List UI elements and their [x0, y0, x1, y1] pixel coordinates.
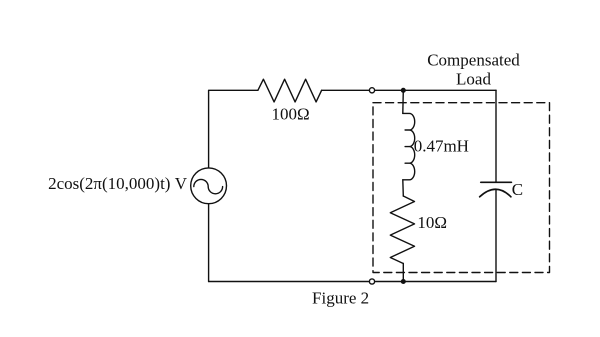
wire right branch upper [495, 90, 497, 182]
svg-text:10Ω: 10Ω [417, 213, 447, 232]
dashed compensated load box [373, 103, 550, 273]
voltage source sine [194, 179, 223, 193]
svg-text:100Ω: 100Ω [272, 105, 310, 124]
capacitor C top plate [481, 181, 512, 183]
wire left lower [208, 204, 210, 282]
inductor L1 0.47mH [403, 113, 415, 179]
svg-text:0.47mH: 0.47mH [414, 137, 469, 156]
junction dot top [401, 88, 406, 93]
junction dot bottom [401, 279, 406, 284]
wire middle branch top [402, 90, 405, 113]
node terminal bottom open circle [369, 279, 374, 284]
resistor R1 100ohm [258, 79, 322, 102]
wire right branch lower [495, 189, 497, 281]
wire bottom [209, 281, 496, 283]
svg-text:2cos(2π(10,000)t) V: 2cos(2π(10,000)t) V [48, 174, 188, 193]
svg-text:C: C [512, 180, 523, 199]
svg-text:Figure 2: Figure 2 [312, 289, 369, 308]
voltage source V1 circle [191, 168, 227, 204]
wire top-right segment [322, 89, 496, 91]
wire resistor to bottom [402, 264, 404, 282]
capacitor C curved plate [480, 189, 511, 197]
node terminal top open circle [369, 88, 374, 93]
svg-text:Compensated: Compensated [427, 51, 520, 70]
svg-text:Load: Load [456, 70, 491, 89]
resistor R2 10ohm [390, 196, 414, 264]
wire inductor to resistor [402, 180, 405, 196]
wire top-left segment [209, 90, 258, 168]
